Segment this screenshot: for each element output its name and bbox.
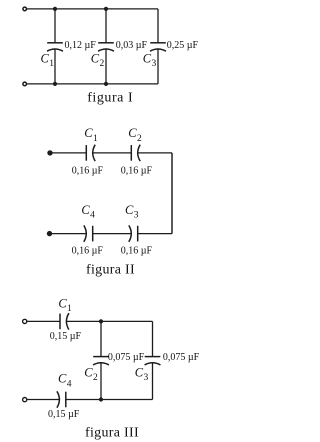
wire top rail [27,8,158,10]
wire bottom rail [27,83,158,85]
svg-text:C4: C4 [81,203,95,221]
terminal bottom-left (filled dot) [47,231,52,236]
wire top left segment [27,320,60,322]
wire branch C1 upper [54,9,56,43]
wire branch C2 lower [105,49,107,84]
capacitor C4 plates [84,225,93,241]
svg-text:0,12 µF: 0,12 µF [65,40,97,51]
terminal top-left (open circle) [23,319,27,323]
wire bottom right segment [138,233,172,235]
svg-text:0,16 µF: 0,16 µF [121,245,153,256]
junction dots figura III [99,319,103,401]
capacitor C4 plates [57,391,66,407]
wire top right segment [138,152,172,154]
capacitor C3 plates [129,225,138,241]
wire middle vertical C2 lower [100,363,102,399]
wire bottom left segment [27,399,59,401]
wire top middle segment [93,152,132,154]
wire branch C3 upper [157,9,159,43]
capacitor C1 plates [47,43,63,51]
svg-text:C1: C1 [84,126,98,144]
wire branch C1 lower [54,49,56,84]
capacitor C3 plates [150,43,166,51]
wire top middle segment [66,320,152,322]
svg-text:0,25 µF: 0,25 µF [167,40,199,51]
svg-text:C3: C3 [125,203,139,221]
svg-text:0,16 µF: 0,16 µF [72,245,104,256]
svg-text:0,16 µF: 0,16 µF [72,165,104,176]
wire right vertical [171,153,173,234]
wire bottom left segment [50,233,87,235]
capacitor C2 plates [98,43,114,51]
wire right vertical C3 lower [152,363,154,399]
svg-text:0,15 µF: 0,15 µF [50,331,82,342]
svg-text:0,03 µF: 0,03 µF [116,40,148,51]
svg-text:figura III: figura III [85,425,139,440]
svg-text:C2: C2 [91,52,105,70]
svg-text:C2: C2 [128,126,142,144]
capacitor C1 plates [60,313,69,329]
wire branch C2 upper [105,9,107,43]
svg-text:figura I: figura I [87,90,133,105]
wire right vertical C3 upper [152,321,154,356]
capacitor C2 plates [93,357,109,365]
svg-text:C2: C2 [84,365,98,383]
wire top left segment [50,152,86,154]
svg-text:C3: C3 [143,52,157,70]
svg-text:figura II: figura II [86,263,135,278]
capacitor C1 plates [86,145,95,161]
svg-text:0,075 µF: 0,075 µF [108,352,145,363]
svg-text:C3: C3 [135,365,149,383]
svg-text:0,16 µF: 0,16 µF [121,165,153,176]
wire bottom middle segment [93,233,132,235]
capacitor C2 plates [131,145,140,161]
terminal bottom-left (open circle) [23,398,27,402]
wire bottom middle segment [66,399,153,401]
terminal top-left (filled dot) [47,150,52,155]
wire branch C3 lower [157,49,159,84]
junction dots figura I [53,7,108,86]
svg-text:C4: C4 [58,372,72,390]
terminal top-left (open circle) [23,7,27,11]
svg-text:0,15 µF: 0,15 µF [48,409,80,420]
svg-text:C1: C1 [41,52,55,70]
wire middle vertical C2 upper [100,321,102,356]
capacitor C3 plates [145,357,161,365]
svg-text:0,075 µF: 0,075 µF [163,352,200,363]
terminal bottom-left (open circle) [23,82,27,86]
svg-text:C1: C1 [58,297,72,315]
